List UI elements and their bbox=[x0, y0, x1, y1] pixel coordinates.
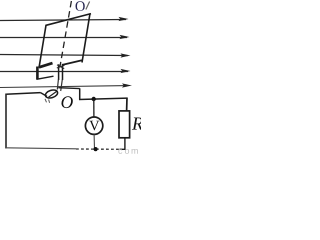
junction dot top bbox=[92, 97, 96, 101]
voltmeter label V bbox=[89, 121, 99, 131]
lead tail right bbox=[61, 80, 63, 92]
wire: left vertical side bbox=[5, 94, 7, 149]
wire: right corner drop bbox=[126, 98, 128, 112]
wire: diagonal to slip ring bbox=[41, 93, 48, 97]
watermark bbox=[118, 149, 138, 154]
wire: bottom dashed segment bbox=[76, 148, 121, 150]
wire: top-left horizontal bbox=[6, 93, 41, 95]
field line B2 bbox=[0, 35, 130, 39]
brush tick left bbox=[45, 99, 47, 103]
coil loop (parallelogram) bbox=[39, 14, 91, 68]
label O (bottom axis) bbox=[61, 96, 72, 108]
wire: slip ring to right riser bbox=[58, 87, 79, 90]
coil right edge bbox=[82, 14, 90, 63]
coil corner step (axle holder) bbox=[36, 67, 39, 80]
wire: short riser bbox=[79, 88, 81, 99]
winding hatch bbox=[57, 65, 65, 68]
lead tail left bbox=[57, 80, 58, 90]
wire: bottom solid segment bbox=[5, 148, 76, 149]
voltmeter V bbox=[85, 117, 102, 134]
coil bottom edge left (thick) bbox=[39, 63, 53, 67]
coil lead wire right bbox=[62, 64, 64, 80]
voltmeter top lead bbox=[93, 99, 95, 117]
coil lead wire left bbox=[58, 64, 60, 80]
coil bottom edge right bbox=[62, 60, 82, 65]
field line B5 bbox=[0, 83, 132, 87]
axle bar bbox=[37, 76, 54, 79]
resistor R box bbox=[119, 111, 130, 138]
field line B4 bbox=[0, 69, 131, 73]
brush tick right bbox=[49, 100, 50, 103]
resistor bottom lead bbox=[120, 138, 125, 150]
label R bbox=[132, 117, 143, 129]
field line B1 bbox=[0, 17, 129, 21]
prime mark bbox=[86, 2, 90, 10]
label O' (top axis) bbox=[75, 1, 84, 11]
slip ring chord bbox=[49, 91, 58, 97]
wire: top horizontal to R bbox=[79, 98, 127, 99]
rotation axis O'O (dashed) bbox=[60, 1, 71, 67]
winding hatch bbox=[57, 65, 64, 69]
slip ring bbox=[44, 89, 58, 100]
voltmeter bottom lead bbox=[93, 134, 95, 149]
junction dot bottom bbox=[94, 147, 98, 151]
field line B3 bbox=[0, 53, 131, 57]
